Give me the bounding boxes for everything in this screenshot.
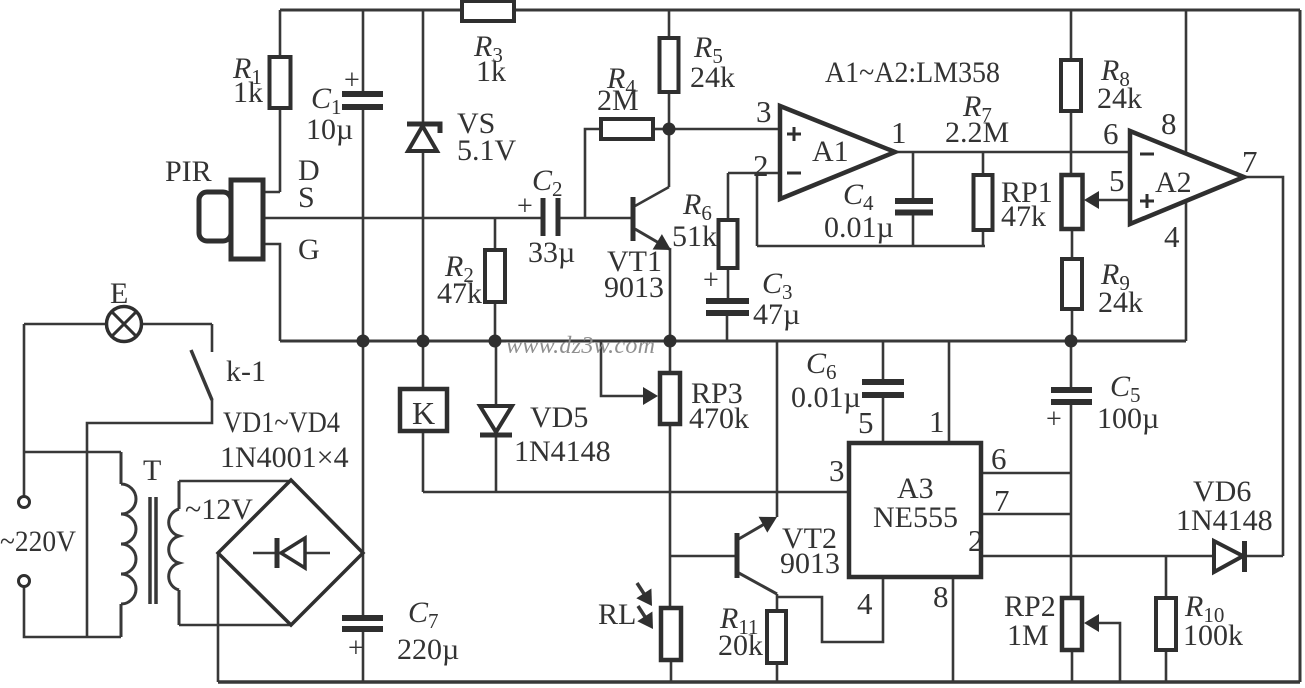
svg-text:S: S (298, 181, 315, 214)
svg-text:T: T (143, 454, 161, 487)
svg-text:G: G (298, 233, 320, 266)
svg-text:E: E (110, 277, 128, 310)
svg-text:A1~A2:LM358: A1~A2:LM358 (825, 56, 1000, 89)
svg-text:+: + (344, 65, 360, 96)
svg-text:k-1: k-1 (226, 355, 266, 388)
svg-text:7: 7 (1242, 144, 1258, 179)
svg-text:3: 3 (829, 453, 845, 488)
svg-text:33µ: 33µ (528, 236, 575, 269)
svg-text:PIR: PIR (165, 155, 212, 188)
svg-text:220µ: 220µ (397, 633, 459, 666)
svg-text:24k: 24k (690, 61, 735, 94)
svg-text:1: 1 (929, 404, 945, 439)
svg-text:47µ: 47µ (753, 298, 800, 331)
svg-text:10µ: 10µ (306, 113, 353, 146)
svg-text:K: K (412, 395, 435, 431)
svg-text:1N4001×4: 1N4001×4 (220, 441, 349, 474)
svg-text:8: 8 (933, 579, 949, 614)
svg-text:VD5: VD5 (530, 401, 588, 434)
svg-text:4: 4 (1164, 219, 1180, 254)
svg-text:RL: RL (598, 598, 636, 631)
svg-text:2: 2 (753, 148, 769, 183)
svg-text:~220V: ~220V (0, 525, 76, 558)
svg-text:VD1~VD4: VD1~VD4 (223, 406, 340, 439)
svg-text:20k: 20k (718, 629, 763, 662)
svg-text:0.01µ: 0.01µ (824, 211, 894, 244)
svg-text:100k: 100k (1183, 619, 1243, 652)
svg-text:1: 1 (891, 115, 907, 150)
svg-text:0.01µ: 0.01µ (791, 381, 861, 414)
svg-text:1M: 1M (1007, 619, 1049, 652)
svg-text:+: + (348, 633, 364, 664)
svg-text:+: + (517, 191, 533, 222)
svg-text:9013: 9013 (604, 271, 664, 304)
svg-text:A2: A2 (1155, 166, 1192, 199)
svg-text:A1: A1 (812, 135, 849, 168)
svg-text:47k: 47k (1001, 200, 1046, 233)
svg-text:1N4148: 1N4148 (1176, 504, 1273, 537)
svg-text:+: + (703, 265, 719, 296)
svg-text:100µ: 100µ (1097, 402, 1159, 435)
svg-text:3: 3 (756, 94, 772, 129)
svg-text:www.dz3w.com: www.dz3w.com (506, 333, 655, 359)
svg-text:1k: 1k (233, 76, 263, 109)
svg-text:2: 2 (968, 523, 984, 558)
svg-text:2M: 2M (597, 84, 639, 117)
svg-text:4: 4 (857, 586, 873, 621)
svg-text:1k: 1k (476, 55, 506, 88)
svg-text:~12V: ~12V (185, 493, 253, 526)
svg-text:24k: 24k (1098, 286, 1143, 319)
svg-text:2.2M: 2.2M (945, 116, 1009, 149)
svg-text:51k: 51k (672, 220, 717, 253)
svg-text:47k: 47k (437, 277, 482, 310)
svg-text:+: + (1046, 404, 1062, 435)
svg-text:NE555: NE555 (873, 501, 958, 534)
svg-text:24k: 24k (1097, 82, 1142, 115)
svg-text:7: 7 (994, 483, 1010, 518)
svg-text:6: 6 (1103, 116, 1119, 151)
svg-text:1N4148: 1N4148 (514, 435, 611, 468)
svg-text:5: 5 (858, 405, 874, 440)
svg-text:8: 8 (1161, 106, 1177, 141)
svg-text:6: 6 (991, 441, 1007, 476)
svg-text:5.1V: 5.1V (457, 134, 517, 167)
svg-text:470k: 470k (689, 402, 749, 435)
svg-text:9013: 9013 (780, 547, 840, 580)
svg-text:5: 5 (1109, 163, 1125, 198)
